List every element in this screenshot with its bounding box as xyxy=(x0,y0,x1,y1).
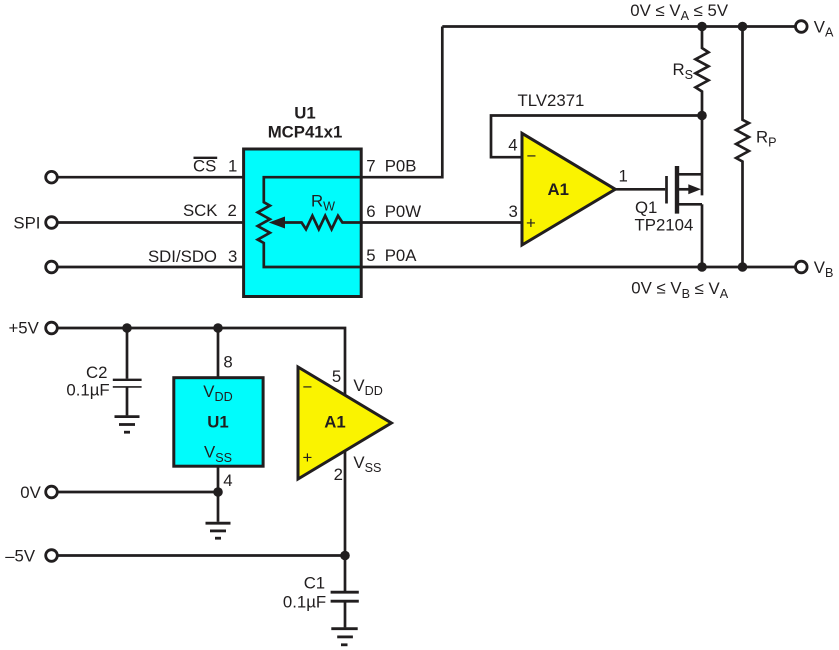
wire SDI/SDO xyxy=(57,266,244,269)
op-amp A1 supply view xyxy=(298,367,391,479)
wire to ground xyxy=(217,492,220,522)
svg-text:0.1µF: 0.1µF xyxy=(283,593,326,612)
svg-text:+: + xyxy=(526,214,536,233)
svg-text:7: 7 xyxy=(366,157,375,176)
svg-text:0V ≤ VA ≤ 5V: 0V ≤ VA ≤ 5V xyxy=(630,1,729,23)
wire pin 8 xyxy=(217,328,220,377)
svg-text:A1: A1 xyxy=(548,180,569,199)
junction node top RS xyxy=(697,22,707,32)
wire +5V rail xyxy=(57,328,345,396)
wiper resistor RW zigzag xyxy=(285,216,362,229)
wire pin 4 xyxy=(217,466,220,492)
svg-text:SPI: SPI xyxy=(13,213,40,232)
source lead xyxy=(679,203,702,206)
junction node top RP xyxy=(738,22,748,32)
terminal SCK xyxy=(46,217,58,229)
svg-text:2: 2 xyxy=(228,201,237,220)
svg-text:–5V: –5V xyxy=(5,546,36,565)
svg-text:6: 6 xyxy=(366,202,375,221)
svg-text:CS: CS xyxy=(193,157,216,176)
junction node RP VB xyxy=(738,262,748,272)
junction node RS bottom xyxy=(697,111,707,121)
junction node pin8 xyxy=(213,323,223,333)
svg-text:8: 8 xyxy=(223,353,232,372)
wire pin 2 VSS xyxy=(344,450,347,556)
wire VB rail (P0A) xyxy=(361,266,796,269)
capacitor C2 xyxy=(113,328,142,415)
svg-text:TP2104: TP2104 xyxy=(635,216,694,235)
svg-text:A1: A1 xyxy=(324,412,345,431)
svg-text:C1: C1 xyxy=(304,573,325,592)
junction node source VB xyxy=(697,262,707,272)
ground under C2 xyxy=(115,417,140,433)
channel bar xyxy=(675,166,679,214)
op-amp A1 xyxy=(522,133,615,245)
wiper arrow xyxy=(269,217,285,229)
junction node C2 xyxy=(122,323,132,333)
svg-text:Q1: Q1 xyxy=(635,198,657,217)
svg-text:P0W: P0W xyxy=(385,202,422,221)
drain lead xyxy=(679,173,702,176)
label pin 1 CS (with overline) xyxy=(193,157,237,176)
wire RS junction to drain xyxy=(701,116,704,196)
resistor RP xyxy=(736,27,749,268)
body lead with arrow xyxy=(679,188,690,191)
svg-text:SDI/SDO: SDI/SDO xyxy=(148,247,217,266)
junction node C1 xyxy=(340,551,350,561)
potentiometer element inside U1 xyxy=(258,177,361,267)
wire VA top rail xyxy=(442,25,795,28)
IC U1 supply box xyxy=(174,378,263,467)
terminal SDI/SDO xyxy=(46,261,58,273)
capacitor C1 xyxy=(331,556,359,628)
junction node pin4/0V xyxy=(213,487,223,497)
svg-text:−: − xyxy=(527,146,537,165)
wire P0B up to top rail xyxy=(361,27,442,178)
terminal -5V xyxy=(46,550,58,562)
svg-text:U1: U1 xyxy=(207,413,228,432)
svg-text:5: 5 xyxy=(332,367,341,386)
terminal 0V xyxy=(46,486,58,498)
wire SCK xyxy=(57,221,244,224)
svg-text:MCP41x1: MCP41x1 xyxy=(268,123,343,142)
svg-text:−: − xyxy=(303,378,313,397)
wire CS input xyxy=(57,176,244,179)
terminal CS input xyxy=(46,171,58,183)
terminal +5V xyxy=(46,322,58,334)
svg-text:3: 3 xyxy=(509,202,518,221)
terminal VA xyxy=(796,21,808,33)
wire 0V xyxy=(57,491,218,494)
ground under pin 4 xyxy=(206,523,231,538)
svg-text:5: 5 xyxy=(366,246,375,265)
svg-text:0V: 0V xyxy=(20,483,41,502)
digital pot U1 box xyxy=(244,149,362,297)
svg-text:+5V: +5V xyxy=(9,319,40,338)
ground under C1 xyxy=(331,629,357,645)
wire source down to VB rail xyxy=(701,204,704,267)
wire -5V xyxy=(57,554,345,557)
svg-text:P0A: P0A xyxy=(385,246,418,265)
svg-text:0.1µF: 0.1µF xyxy=(66,380,109,399)
svg-text:1: 1 xyxy=(619,166,628,185)
svg-text:TLV2371: TLV2371 xyxy=(518,91,585,110)
svg-text:0V ≤ VB ≤ VA: 0V ≤ VB ≤ VA xyxy=(631,279,728,301)
svg-text:1: 1 xyxy=(228,157,237,176)
svg-text:P0B: P0B xyxy=(385,157,417,176)
resistor RS xyxy=(696,27,709,116)
transistor Q1 PMOS xyxy=(667,166,703,214)
gate bar xyxy=(665,176,668,204)
svg-text:2: 2 xyxy=(334,465,343,484)
svg-text:3: 3 xyxy=(228,247,237,266)
svg-text:+: + xyxy=(303,448,313,467)
wire feedback to inverting input xyxy=(491,116,702,158)
wire P0W to non-inverting input xyxy=(361,221,522,224)
wire op-amp output to gate xyxy=(615,188,665,191)
terminal VB xyxy=(796,261,808,273)
svg-text:U1: U1 xyxy=(294,103,315,122)
svg-text:4: 4 xyxy=(508,135,517,154)
svg-text:4: 4 xyxy=(223,471,232,490)
svg-text:SCK: SCK xyxy=(183,201,218,220)
